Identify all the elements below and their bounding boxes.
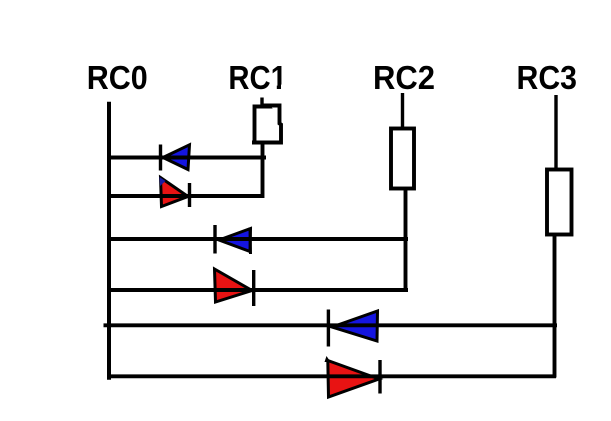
resistor R2 <box>391 129 414 189</box>
svg-text:RC1: RC1 <box>228 59 287 96</box>
LED D5 blue (RC3 to RC0) <box>328 310 377 347</box>
wire RC1 top stub <box>260 98 263 108</box>
LED D4 red (RC0 to RC2) <box>215 269 254 306</box>
wire RC1 column <box>261 143 265 198</box>
wire RC0 column <box>107 104 111 379</box>
wire row 3 <box>107 237 408 241</box>
svg-text:RC3: RC3 <box>517 59 578 96</box>
LED D6 red (RC0 to RC3) <box>325 356 381 397</box>
wire row 2 <box>108 194 264 198</box>
resistor R3 <box>547 170 572 235</box>
svg-text:RC2: RC2 <box>373 59 435 96</box>
resistor R1 <box>252 106 281 143</box>
svg-text:RC0: RC0 <box>87 59 148 96</box>
LED D2 red (RC0 to RC1) <box>160 177 190 207</box>
LED D3 blue (RC2 to RC0) <box>215 225 251 254</box>
wire RC2 top stub <box>401 93 404 129</box>
wire row 5 <box>104 323 558 327</box>
wire RC3 column <box>553 235 557 378</box>
wire row 6 <box>107 374 556 378</box>
wire row 4 <box>107 288 408 292</box>
wire RC3 top stub <box>554 95 557 170</box>
wire row 1 <box>108 156 266 160</box>
wire RC2 column <box>404 189 408 293</box>
LED D1 blue (RC1 to RC0) <box>161 145 190 171</box>
